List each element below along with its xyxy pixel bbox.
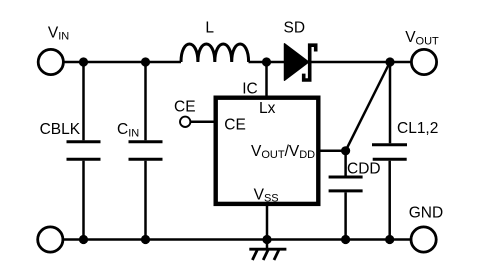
svg-text:IC: IC — [242, 81, 258, 98]
svg-text:CBLK: CBLK — [40, 121, 81, 138]
svg-text:SD: SD — [284, 19, 306, 36]
svg-text:CL1,2: CL1,2 — [397, 120, 438, 137]
svg-text:L: L — [205, 19, 214, 36]
svg-text:CE: CE — [224, 116, 246, 133]
svg-text:GND: GND — [409, 205, 443, 222]
svg-text:CE: CE — [174, 98, 196, 115]
svg-text:CDD: CDD — [347, 161, 381, 178]
svg-text:Lx: Lx — [259, 100, 276, 117]
